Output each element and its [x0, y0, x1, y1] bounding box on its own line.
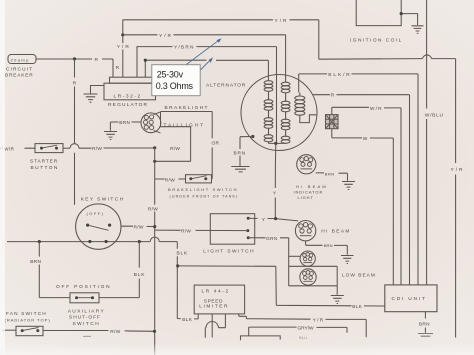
node BRN drop [38, 240, 41, 243]
svg-text:BLK: BLK [352, 304, 362, 310]
svg-text:Y/R: Y/R [275, 18, 289, 24]
svg-text:TAILLIGHT: TAILLIGHT [164, 122, 205, 128]
svg-text:W/R: W/R [370, 106, 383, 112]
wire R/W bus to brakelight switch [155, 177, 186, 183]
wire BRN to aux switch [30, 242, 70, 298]
lamp DS5 low beam headlight [300, 269, 376, 285]
wire BRN hi beam to ground [306, 241, 348, 255]
svg-text:0.3 Ohms: 0.3 Ohms [156, 81, 194, 91]
node junction breaker [73, 57, 76, 60]
svg-text:R/W: R/W [165, 177, 175, 183]
svg-text:BLK/R: BLK/R [328, 72, 351, 78]
lamp DS4 low beam pilot [300, 251, 315, 266]
lamp DS3 hi beam headlight [295, 221, 350, 241]
svg-text:BLK: BLK [134, 272, 145, 278]
brakelight switch S5 [168, 175, 238, 199]
svg-text:(RADIATOR TOP): (RADIATOR TOP) [5, 318, 51, 323]
annotation arrow long [185, 38, 221, 65]
svg-text:Y/R: Y/R [451, 167, 465, 173]
wire R/W starter to bus with hop [63, 144, 155, 152]
wire GRY/W out [249, 326, 347, 336]
svg-text:(UNDER FRONT OF TANK): (UNDER FRONT OF TANK) [170, 195, 239, 199]
coil L2 alternator column B [281, 82, 290, 143]
wire Y/R top run to far right [123, 18, 465, 338]
ground hi beam [341, 256, 354, 264]
svg-text:R: R [95, 57, 99, 63]
svg-text:STARTER: STARTER [30, 158, 58, 164]
wire W/R pickup to CDI [332, 106, 401, 285]
svg-text:SWITCH: SWITCH [73, 321, 101, 327]
svg-text:(OFF): (OFF) [87, 211, 105, 216]
svg-text:OFF POSITION: OFF POSITION [56, 284, 111, 290]
node starter to bus [153, 146, 156, 149]
ground alternator BRN [231, 167, 249, 172]
ground taillight [104, 132, 117, 140]
svg-text:HI BEAM: HI BEAM [321, 229, 351, 235]
wire BLK/R lighting coil to CDI [299, 72, 418, 285]
svg-text:ALTERNATOR: ALTERNATOR [206, 82, 246, 88]
svg-text:CDI UNIT: CDI UNIT [392, 296, 427, 302]
svg-text:BRN: BRN [324, 243, 333, 248]
svg-text:BUTTON: BUTTON [31, 165, 59, 171]
wire GRN branch to pilot lamp [289, 255, 300, 257]
svg-text:BLK: BLK [177, 251, 188, 257]
key switch S2 [76, 197, 125, 250]
alternator G1 body [206, 75, 317, 151]
wire R alternator to CDI [313, 93, 410, 285]
svg-text:AUXILIARY: AUXILIARY [68, 309, 105, 315]
wire BRN CDI to ground [419, 312, 430, 333]
svg-text:BRN: BRN [325, 171, 335, 176]
lamp DS1 tail-brake light [141, 105, 209, 133]
lamp DS2 hi beam indicator [294, 155, 328, 201]
node BLK drop [138, 240, 141, 243]
svg-text:GRY/W: GRY/W [297, 326, 314, 332]
svg-text:LIGHT: LIGHT [298, 195, 314, 200]
svg-text:R: R [116, 65, 120, 71]
node key switch contacts bottom [88, 240, 91, 243]
ground lamps [331, 296, 344, 304]
svg-text:Y/R: Y/R [159, 33, 173, 39]
node Y pin junction [144, 59, 147, 62]
svg-text:CIRCUIT: CIRCUIT [6, 67, 33, 73]
annotation arrow short [200, 57, 213, 70]
svg-text:Y/R: Y/R [313, 318, 325, 324]
svg-text:REGULATOR: REGULATOR [108, 102, 148, 108]
coil L1 alternator column A [264, 81, 273, 144]
svg-text:LR-32-2: LR-32-2 [114, 93, 142, 99]
wire BRN taillight to ground [110, 120, 141, 131]
svg-text:Y/R: Y/R [117, 44, 131, 50]
wire R/W taillight feed [155, 127, 191, 162]
wire R vertical to key switch [73, 59, 77, 205]
wire lighting coil bottom to frame [300, 115, 317, 123]
svg-text:R/W: R/W [92, 146, 102, 152]
svg-text:GRN: GRN [266, 236, 278, 242]
svg-text:Y: Y [273, 191, 277, 197]
svg-text:R: R [331, 93, 335, 99]
svg-text:W: W [363, 136, 368, 142]
wire OR brakelight feed [161, 112, 220, 179]
wire W pickup to CDI [332, 129, 394, 285]
svg-text:IGNITION COIL: IGNITION COIL [350, 38, 403, 44]
CDI unit U3 [385, 285, 437, 312]
ground CDI [418, 334, 433, 337]
node Y junction light switch [274, 217, 277, 220]
wire key switch bottom line with hop [7, 237, 198, 323]
svg-text:KEY SWITCH: KEY SWITCH [81, 197, 125, 203]
coil L3 lighting coil [295, 96, 305, 115]
speed limiter U2 LR 44-2 [194, 285, 244, 314]
circuit breaker CB1 20amp [5, 55, 36, 79]
wire BRN alternator to ground [234, 137, 253, 167]
svg-text:BRN: BRN [119, 120, 130, 126]
wire Y light switch to hi beam [248, 217, 298, 223]
wire Y/R middle run to alternator [123, 33, 286, 82]
node ignition coil junction [400, 12, 403, 15]
svg-text:W/R: W/R [4, 146, 14, 152]
node taillight to bus [153, 160, 156, 163]
wire R/W bus vertical [148, 148, 158, 355]
svg-text:R/W: R/W [110, 329, 120, 335]
svg-text:BLK: BLK [182, 317, 192, 323]
wire R/W fan switch to bus [43, 329, 155, 335]
wire Y run regulator to alternator [145, 59, 268, 80]
wire R/W key switch to bus [121, 225, 155, 231]
svg-text:R/W: R/W [181, 228, 191, 234]
svg-text:W/BLU: W/BLU [425, 112, 444, 118]
svg-text:R/W: R/W [170, 146, 180, 152]
wire speed limiter pin 2 [211, 314, 213, 338]
node alternator frame tap [251, 135, 254, 138]
wire alternator coil bottoms joined [269, 142, 286, 144]
svg-text:25-30v: 25-30v [157, 70, 184, 80]
svg-text:Y/BRN: Y/BRN [174, 45, 195, 51]
svg-text:OR: OR [212, 140, 220, 146]
wire BLK to aux switch [99, 242, 145, 298]
pickup coil PU1 [326, 115, 339, 129]
svg-text:LR 44-2: LR 44-2 [202, 289, 230, 295]
svg-text:BRN: BRN [30, 259, 41, 265]
wire bottom staple connector [241, 335, 308, 340]
wire W/R from left edge [0, 146, 35, 152]
node Y/R junction [121, 33, 124, 36]
svg-text:SPEED: SPEED [204, 298, 223, 304]
wire R/W bus to light switch [155, 228, 248, 234]
svg-text:BRN: BRN [419, 322, 430, 328]
svg-text:LIMITER: LIMITER [199, 304, 229, 310]
svg-text:R/W: R/W [148, 206, 158, 212]
ground regulator [84, 86, 105, 103]
wire fan switch left stub [2, 329, 16, 331]
wire Y/BRN run to alternator [137, 45, 277, 144]
ground indicator [342, 182, 355, 190]
svg-text:R/W: R/W [134, 225, 144, 231]
starter button S1 [30, 144, 63, 171]
svg-text:SHUT-OFF: SHUT-OFF [69, 315, 101, 321]
overlay edges [0, 0, 5, 355]
wire BLK kill line to CDI [178, 266, 385, 310]
ignition coil T1 [350, 0, 424, 44]
svg-text:BLU: BLU [299, 335, 307, 340]
svg-text:INDICATOR: INDICATOR [294, 190, 324, 195]
svg-text:FAN SWITCH: FAN SWITCH [6, 311, 47, 317]
auxiliary shut-off switch S3 [56, 284, 111, 336]
wire GRN light switch to low beam [248, 236, 289, 286]
svg-text:BRAKELIGHT: BRAKELIGHT [165, 105, 209, 111]
wire W/BLU vertical to CDI [425, 0, 444, 285]
wire Y/R pin up with junction [117, 20, 131, 77]
wire Y alternator bottom to junction [273, 143, 277, 218]
svg-text:BRAKELIGHT SWITCH: BRAKELIGHT SWITCH [168, 187, 238, 192]
svg-text:LIGHT SWITCH: LIGHT SWITCH [203, 249, 255, 255]
svg-text:BRN: BRN [234, 150, 247, 156]
wire R from breaker to regulator [36, 57, 113, 77]
svg-text:Y: Y [262, 217, 266, 223]
wire BRN indicator to ground [316, 171, 348, 180]
fan switch S4 [5, 311, 51, 335]
svg-text:HI BEAM: HI BEAM [296, 184, 328, 189]
node key switch to bus [153, 225, 156, 228]
svg-text:R: R [73, 80, 77, 86]
wire Y/R speed limiter out [239, 314, 366, 337]
callout box 25-30v [152, 65, 200, 96]
light switch S6 [203, 214, 255, 255]
node fan switch to bus [153, 330, 156, 333]
svg-text:BREAKER: BREAKER [5, 73, 34, 79]
regulator U1 LR-32-2 [104, 77, 156, 108]
svg-text:LOW BEAM: LOW BEAM [342, 272, 376, 278]
wire speed limiter pin 3 with hop [205, 314, 225, 338]
wire lamp return rails to ground [289, 266, 338, 295]
node alternator center bottom [274, 142, 277, 145]
node kill line junction [176, 264, 179, 267]
svg-text:20amp: 20amp [11, 58, 30, 63]
